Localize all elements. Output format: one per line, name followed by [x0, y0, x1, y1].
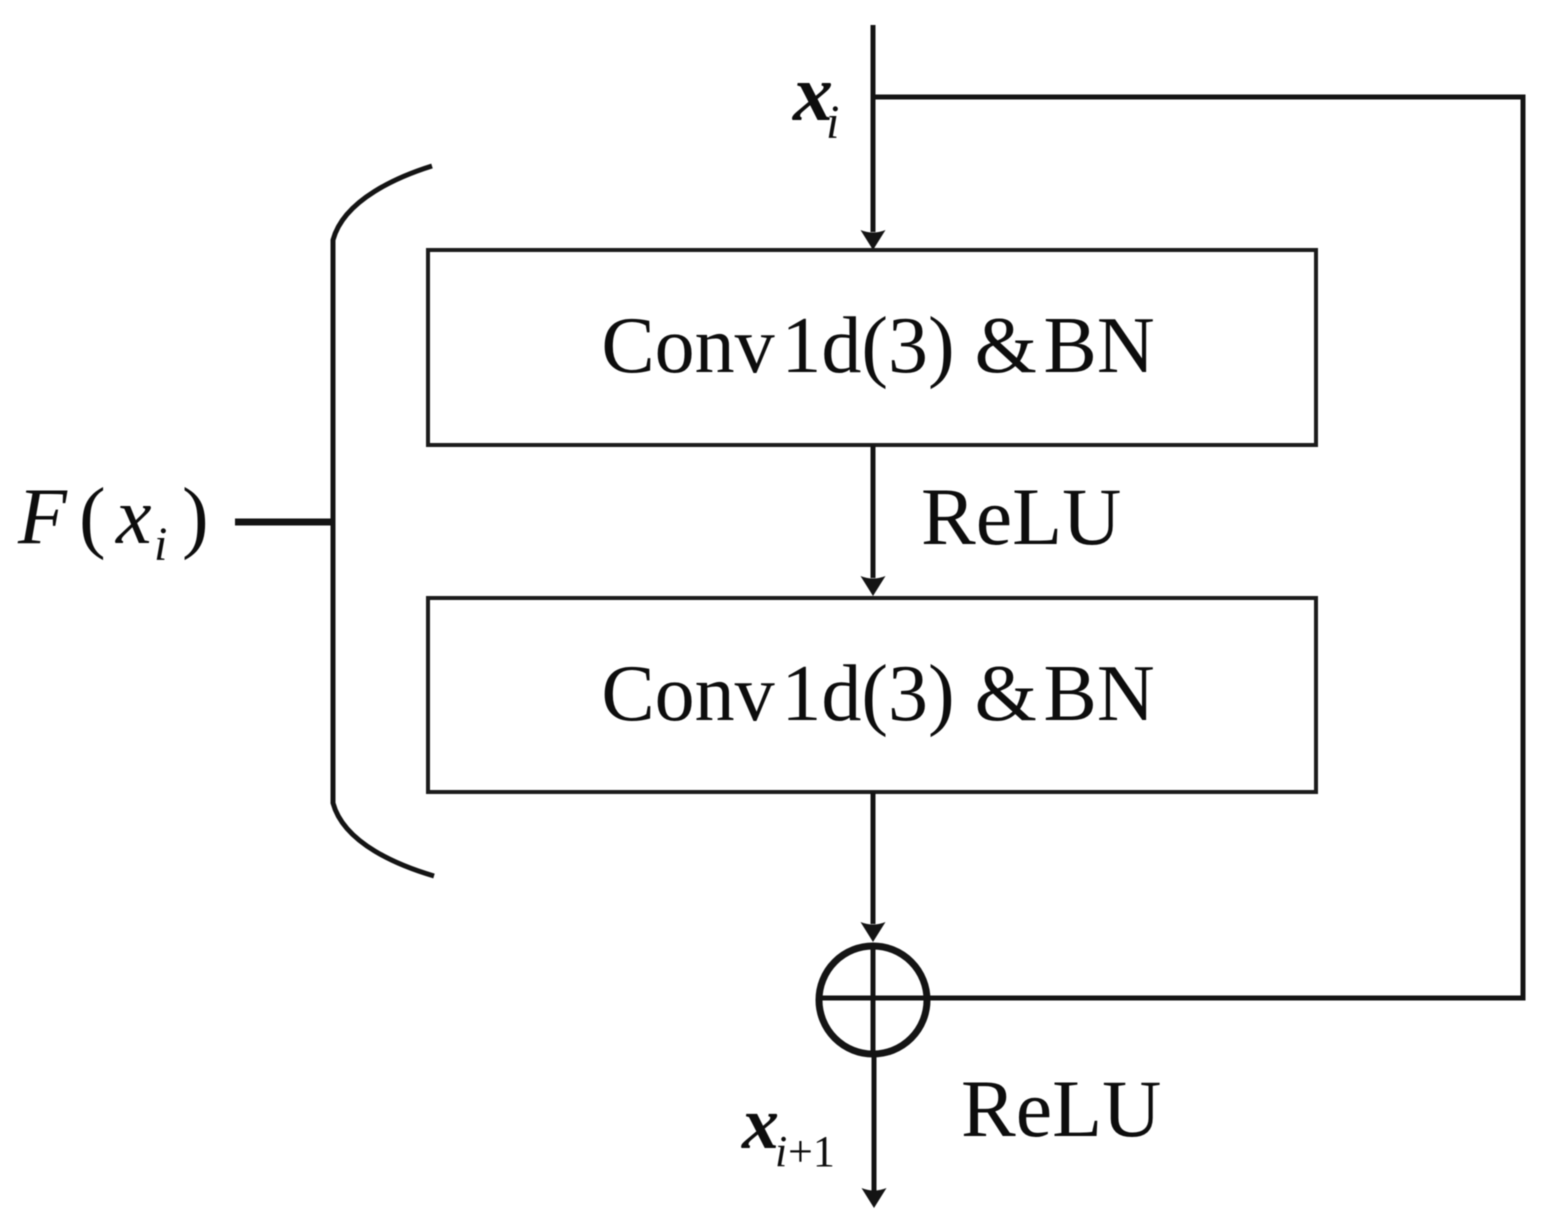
- svg-text:F: F: [17, 473, 68, 561]
- svg-text:i: i: [826, 96, 839, 149]
- arrowhead into adder: [861, 922, 886, 942]
- arrowhead output: [862, 1188, 887, 1208]
- svg-text:+1: +1: [788, 1127, 835, 1176]
- wire: top input vertical segment: [871, 25, 876, 232]
- svg-text:x: x: [741, 1083, 779, 1165]
- svg-text:ReLU: ReLU: [961, 1063, 1161, 1154]
- svg-text:i: i: [775, 1127, 787, 1176]
- svg-text:Conv 1d(3) & BN: Conv 1d(3) & BN: [601, 302, 1154, 390]
- wire: skip connection bottom horizontal into adder: [927, 996, 1526, 1001]
- adder plus: vertical diameter: [871, 944, 876, 1055]
- wire: skip connection right vertical: [1521, 95, 1526, 1001]
- wire: between box1 and box2: [871, 445, 876, 578]
- wire: adder output: [872, 1055, 877, 1192]
- block Conv1d(3)&BN (first): [428, 250, 1316, 445]
- arrowhead into box Conv2: [861, 576, 886, 596]
- arrowhead into box Conv1: [861, 230, 886, 250]
- svg-text:): ): [182, 473, 209, 561]
- svg-text:(: (: [79, 473, 106, 561]
- svg-text:x: x: [115, 473, 152, 561]
- svg-text:ReLU: ReLU: [921, 471, 1121, 562]
- adder circle (element-wise sum): [819, 946, 927, 1054]
- wire: dash from F(x_i) to brace: [235, 519, 334, 526]
- adder plus: horizontal diameter: [818, 996, 928, 1001]
- wire: skip connection top horizontal: [873, 95, 1521, 100]
- svg-text:i: i: [154, 518, 167, 571]
- block Conv1d(3)&BN (second): [428, 598, 1316, 792]
- brace grouping F(x_i): [333, 166, 434, 876]
- svg-text:Conv 1d(3) & BN: Conv 1d(3) & BN: [601, 650, 1154, 738]
- wire: box2 to adder: [871, 792, 876, 924]
